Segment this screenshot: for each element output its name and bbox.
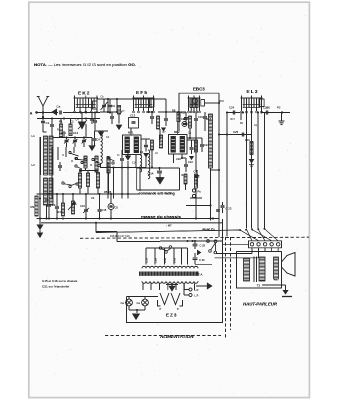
ground triangle g3 <box>143 153 149 157</box>
coil L2 <box>44 178 48 205</box>
wire EK2 anode <box>97 98 158 100</box>
wire antifading <box>137 167 180 169</box>
wire v66 low <box>65 147 67 157</box>
wire v122 low <box>121 168 123 199</box>
svg-text:C1: C1 <box>46 121 50 125</box>
transformer TA core <box>139 272 199 276</box>
tube V2 EF5 <box>133 97 155 99</box>
oscillator parts <box>107 156 109 158</box>
svg-text:EBC3: EBC3 <box>193 87 205 92</box>
ground triangle g5 <box>189 156 194 160</box>
switch I3 <box>92 158 94 160</box>
output transformer T3 secondary <box>259 257 265 281</box>
wire MF1 right <box>141 138 150 140</box>
svg-text:220v: 220v <box>164 257 167 263</box>
capacitor C8 <box>48 194 50 204</box>
svg-text:HAUT-PARLEUR: HAUT-PARLEUR <box>243 302 278 307</box>
switch mains <box>159 247 162 250</box>
trimmer C12 <box>74 138 76 140</box>
speaker feed stubs <box>251 248 253 252</box>
speaker ground wire <box>262 284 286 286</box>
chassis bus 1 <box>37 218 220 220</box>
wire h y112b <box>72 112 100 114</box>
wire h205 <box>186 205 211 207</box>
svg-text:R14: R14 <box>206 117 212 121</box>
wire EF5 cathode <box>146 111 152 113</box>
svg-text:E Z 3: E Z 3 <box>166 313 177 318</box>
antenna A <box>38 97 48 107</box>
resistor R8 <box>177 112 180 122</box>
dashed chassis boundary <box>80 237 309 238</box>
svg-text:C18: C18 <box>181 117 186 121</box>
capacitor Ck <box>151 112 153 116</box>
svg-text:NOTA. — Les inverseurs I1 I2 I: NOTA. — Les inverseurs I1 I2 I3 sont en … <box>34 63 136 67</box>
resistor R6 <box>96 173 99 189</box>
output transformer T3 primary <box>244 258 250 281</box>
wire depart <box>95 223 97 233</box>
svg-text:ALIMENTATION: ALIMENTATION <box>159 334 194 339</box>
speaker box <box>237 252 282 289</box>
svg-text:R18 R19 C27 C28: R18 R19 C27 C28 <box>110 235 130 238</box>
wire v64 <box>63 131 65 138</box>
capacitor C9 <box>56 194 58 206</box>
wire coil join <box>42 124 44 133</box>
capacitor C21 <box>201 138 203 144</box>
wire EL3 right <box>262 112 290 114</box>
capacitor C30 <box>194 253 196 257</box>
resistor R7b <box>159 135 162 148</box>
capacitor C23 <box>222 202 224 205</box>
svg-text:C12: C12 <box>73 131 79 135</box>
svg-text:A: A <box>30 111 33 115</box>
svg-text:L1: L1 <box>32 134 36 138</box>
paper speckle noise <box>119 62 122 65</box>
wire mains left <box>116 232 118 242</box>
coil L3 <box>101 134 103 164</box>
tri EF5 <box>161 128 166 132</box>
capacitor C15b <box>99 194 101 209</box>
wire v52 low <box>51 147 53 199</box>
svg-text:C9: C9 <box>52 203 56 207</box>
svg-text:L.P.: L.P. <box>195 288 200 292</box>
resistor R12 <box>62 194 64 203</box>
svg-text:C21: C21 <box>204 143 209 147</box>
svg-text:départ Pu: départ Pu <box>202 227 215 231</box>
svg-text:C15: C15 <box>102 208 107 212</box>
tube V1 EK2 <box>74 97 99 99</box>
svg-text:L26: L26 <box>266 107 271 110</box>
svg-text:C20: C20 <box>176 157 181 161</box>
connector socket <box>249 241 282 248</box>
resistor R3b <box>69 124 72 136</box>
rail HT2 <box>218 93 220 237</box>
power box <box>127 238 223 323</box>
wire coil left2 <box>40 137 42 175</box>
trimmer C12b <box>83 138 85 140</box>
wire v140 low <box>139 168 141 192</box>
svg-text:R9: R9 <box>31 205 35 209</box>
resistor R5b <box>86 173 89 187</box>
svg-text:C16: C16 <box>80 204 85 208</box>
capacitor C5 <box>91 113 93 119</box>
svg-text:Pu: Pu <box>198 190 202 194</box>
wire rail to plug <box>223 243 249 245</box>
capacitor C6 circ <box>108 204 114 210</box>
resistor R4 <box>117 106 120 115</box>
capacitor C7 <box>111 112 113 116</box>
coil L4 oscillator <box>148 150 150 179</box>
rail HT1 <box>210 170 212 221</box>
wire EL3 cathode <box>240 112 242 120</box>
lamp La1 <box>126 299 133 306</box>
tuning capacitor CV3 <box>98 132 104 137</box>
capacitor C14a <box>165 112 167 118</box>
wire top h1 <box>37 118 100 120</box>
capacitor C13 pad <box>121 150 123 158</box>
svg-text:L4: L4 <box>140 150 144 154</box>
transformer TA feeds <box>145 248 147 265</box>
rail aux2 <box>264 113 266 229</box>
resistor R13b <box>189 116 192 128</box>
capacitor C26 <box>265 111 267 115</box>
ground triangle g7 <box>251 155 253 159</box>
rail HT3 <box>222 219 224 238</box>
wire v146 low <box>145 156 147 168</box>
svg-text:C15 et C16 sur le chassis: C15 et C16 sur le chassis <box>42 279 78 283</box>
resistor R3 <box>84 156 87 168</box>
terminal LP2 <box>189 294 192 297</box>
capacitor C15 <box>190 147 194 149</box>
svg-text:C11: C11 <box>61 131 66 135</box>
wire EBC3 anode <box>205 102 220 104</box>
wire h138 <box>187 137 202 139</box>
switch I1 <box>69 151 71 153</box>
wire osc bottom <box>100 167 146 169</box>
svg-text:T.A.: T.A. <box>198 273 203 277</box>
wire v84 low <box>85 168 87 171</box>
dashed vertical 1 <box>225 237 227 339</box>
ground triangle g9 <box>136 310 138 313</box>
ground triangle g4 <box>125 156 130 160</box>
circled cap EBC3 <box>182 122 187 127</box>
EZ3 plate wire <box>166 284 178 286</box>
svg-text:R19: R19 <box>181 112 186 115</box>
wire EF5 anode <box>157 98 166 100</box>
wire r5 tops <box>79 171 81 174</box>
diode load R13 <box>195 140 198 152</box>
svg-text:C 14: C 14 <box>148 172 154 176</box>
capacitor C1 <box>42 117 44 121</box>
svg-text:E K 2: E K 2 <box>78 91 90 96</box>
svg-text:MF2: MF2 <box>174 130 180 134</box>
wire R10 down <box>185 184 187 190</box>
wire v152 low <box>151 150 153 168</box>
transformer TA secondary <box>142 281 198 283</box>
switch I4 <box>62 182 64 184</box>
rail EL3 a <box>251 113 253 229</box>
EBC3 shield box <box>179 93 219 131</box>
LP wires <box>188 289 189 291</box>
rail aux3 <box>226 113 228 237</box>
svg-text:R15: R15 <box>220 100 225 103</box>
svg-text:C8: C8 <box>45 198 49 202</box>
capacitor osc small <box>59 162 61 165</box>
capacitor Ca <box>43 112 58 114</box>
ground triangle g1 <box>118 114 120 124</box>
svg-text:C13: C13 <box>130 114 136 118</box>
wire v97 mid <box>96 171 98 174</box>
rectifier EZ3 anode <box>169 286 176 292</box>
svg-text:R16: R16 <box>245 138 250 142</box>
wire drop to MF1 <box>107 99 109 112</box>
wire v108 low <box>107 162 109 199</box>
svg-text:R12: R12 <box>58 210 63 214</box>
wire v196 low2 <box>195 188 197 198</box>
resistor Rosc2 <box>107 157 110 173</box>
ground main <box>39 219 41 225</box>
svg-text:245v: 245v <box>174 257 177 263</box>
capacitor C23b <box>216 209 220 211</box>
tube V4 EL3 <box>241 97 263 99</box>
capacitor C22 <box>185 158 187 164</box>
wire MF1 top <box>130 128 132 135</box>
wire h y198 <box>37 193 141 195</box>
capacitor C25 <box>241 133 243 137</box>
rail aux1 <box>257 113 259 229</box>
capacitor C14 <box>159 168 161 170</box>
capacitor C24 <box>232 111 234 115</box>
svg-text:P: P <box>177 307 179 311</box>
dashed vertical 2 <box>230 237 232 330</box>
wire v196 low <box>195 138 197 172</box>
svg-text:R17: R17 <box>231 118 236 121</box>
svg-text:exc.: exc. <box>274 279 279 282</box>
svg-text:Ca: Ca <box>57 105 61 109</box>
IF transformer MF1 <box>123 135 142 155</box>
wire mains top <box>160 240 223 242</box>
trimmer C16 <box>85 194 87 209</box>
pin hook 1 <box>158 300 161 306</box>
coil L1 <box>44 136 48 175</box>
wire v113 low <box>113 168 115 199</box>
wire r5r6 bottom <box>79 188 81 194</box>
lamp La2 <box>142 299 149 306</box>
svg-text:L2: L2 <box>32 163 36 167</box>
wire plug drop2 <box>258 248 260 258</box>
wire EBC3 down <box>189 128 191 138</box>
capacitor C9b <box>185 112 187 117</box>
switch I2 <box>75 157 77 159</box>
svg-text:110v: 110v <box>146 257 149 263</box>
resistor R5 <box>78 173 81 188</box>
resistor R11 <box>195 174 198 188</box>
svg-text:Ca: Ca <box>121 301 125 305</box>
resistor Rg <box>151 140 154 150</box>
capacitor C19 <box>195 112 197 118</box>
ground triangle g10 <box>285 288 287 290</box>
svg-text:L.P.: L.P. <box>195 294 200 298</box>
resistor R10 <box>184 174 187 184</box>
svg-text:C 23: C 23 <box>226 207 232 211</box>
wire mf2 down1 <box>173 154 175 163</box>
wire EL3 left <box>227 112 240 114</box>
wire mf2 down2 <box>181 154 183 158</box>
svg-text:T3: T3 <box>257 284 261 288</box>
coil L5 <box>140 155 142 172</box>
tube V3 EBC3 <box>188 97 201 99</box>
tube EK2 side pin <box>93 101 98 109</box>
switch voltage sel <box>207 240 210 243</box>
trimmer arrow <box>52 109 58 116</box>
svg-text:↓ MT: ↓ MT <box>166 223 172 227</box>
wire coil left <box>39 137 41 219</box>
svg-text:C22: C22 <box>188 160 193 164</box>
tuning capacitor CV2 <box>125 156 131 161</box>
svg-text:C 29: C 29 <box>200 244 206 248</box>
resistor R7 <box>157 116 160 129</box>
trimmer C11 <box>66 138 68 140</box>
svg-text:C6: C6 <box>115 206 119 210</box>
transformer sec feeds <box>142 284 144 291</box>
tube EL3 side pin <box>260 99 264 107</box>
capacitor C3 <box>51 119 53 125</box>
svg-text:C17: C17 <box>194 171 199 174</box>
svg-text:P2: P2 <box>277 106 281 110</box>
ground bars g6 <box>281 113 283 122</box>
lamp wires <box>127 296 159 298</box>
svg-text:E L 3: E L 3 <box>247 89 258 94</box>
wire v128 low <box>127 161 129 199</box>
dashed bottom <box>105 335 221 337</box>
wire grid EK2 <box>42 113 44 118</box>
svg-text:P: P <box>160 307 162 311</box>
wire MF2 right <box>187 139 196 141</box>
capacitor C13 box <box>129 118 139 129</box>
arrow HT out <box>207 283 213 290</box>
svg-text:C51 sur l'étanchéité: C51 sur l'étanchéité <box>42 284 70 288</box>
svg-text:C25: C25 <box>233 130 239 134</box>
potentiometer P1 <box>72 194 74 201</box>
capacitor C29 <box>194 241 196 244</box>
wire v160 mid <box>159 129 161 140</box>
ground triangle g8 <box>156 177 165 184</box>
svg-text:Ca: Ca <box>137 301 141 305</box>
wire h y137 <box>53 137 92 139</box>
svg-text:Cr: Cr <box>117 154 120 157</box>
svg-text:commande anti-fading: commande anti-fading <box>139 192 175 196</box>
connector fan wires <box>240 230 259 241</box>
speaker cone <box>282 253 296 277</box>
wire coil bottom <box>46 205 48 219</box>
svg-text:E F 5: E F 5 <box>136 90 147 95</box>
wire plug drop1 <box>251 248 253 254</box>
wire C25 row <box>219 134 252 136</box>
svg-text:130v: 130v <box>155 257 158 263</box>
rectifier EZ3 filament <box>160 293 169 305</box>
wire R14 bottom <box>210 168 212 170</box>
wire v86 <box>85 124 87 138</box>
resistor R9 <box>35 196 38 216</box>
svg-text:C4: C4 <box>97 138 101 142</box>
svg-text:C19: C19 <box>198 115 203 119</box>
tube EF5 side pin <box>150 99 155 107</box>
svg-text:C10: C10 <box>132 162 137 165</box>
svg-text:R5 R6: R5 R6 <box>104 190 112 194</box>
svg-text:C4: C4 <box>91 196 95 200</box>
resistor Rosc <box>95 156 98 172</box>
wire plug drop3 <box>264 248 266 252</box>
chassis bus 2 <box>41 222 223 224</box>
resistor R2 <box>59 124 62 137</box>
output transformer T3 core <box>253 257 255 283</box>
svg-text:C24: C24 <box>229 106 235 110</box>
wire v58 low <box>57 147 59 160</box>
capacitor C17b <box>196 170 198 175</box>
IF transformer MF2 <box>169 135 188 155</box>
resistor R16 <box>250 142 253 155</box>
wire h y112 <box>100 111 122 113</box>
rail EL3 k <box>246 113 248 229</box>
wire v74 low <box>73 147 75 153</box>
transformer TA primary <box>142 266 198 268</box>
capacitor C17 <box>204 112 206 116</box>
tuning capacitor CV1 <box>78 122 86 130</box>
terminal Pu1 <box>192 189 195 192</box>
capacitor C-grid <box>144 144 148 146</box>
pin hook 2 <box>180 300 183 306</box>
trimmer cluster right of EK2 <box>103 99 105 105</box>
terminal LP1 <box>189 288 192 291</box>
svg-text:C 30: C 30 <box>199 258 205 262</box>
field coil <box>274 257 279 279</box>
wire h131 <box>95 130 108 132</box>
wire coil right <box>52 150 54 165</box>
ground triangle g2 <box>89 145 96 151</box>
wire v131 mf1 <box>127 155 129 160</box>
tube EBC3 side pin <box>201 100 205 107</box>
wire v52 <box>51 127 53 138</box>
switch I2b <box>75 165 77 167</box>
smudge sig <box>282 296 292 298</box>
wire EK2 k <box>94 113 96 121</box>
capacitor C6a <box>94 131 96 138</box>
resistor R14 long <box>209 114 213 168</box>
